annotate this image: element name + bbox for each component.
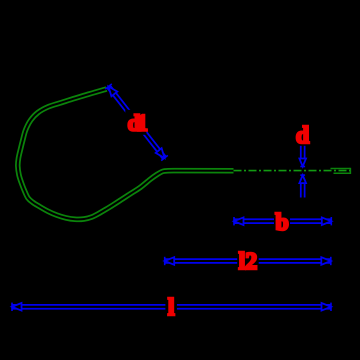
wire pigtail body [18,89,234,219]
svg-text:l2: l2 [239,249,258,275]
svg-text:l: l [168,295,175,321]
dimension d arrows [300,145,306,163]
svg-text:b: b [275,210,288,236]
label d [295,123,311,146]
dimension d1 line [109,87,165,159]
label d1 [125,110,146,135]
svg-text:d: d [296,123,310,149]
dimension b line [234,218,331,224]
center line [234,170,353,172]
label l2 [237,248,259,272]
label b [274,210,290,233]
rod tip [331,168,351,170]
dimension l2 line [165,258,331,264]
label l [165,295,177,318]
dimension l line [12,304,331,310]
